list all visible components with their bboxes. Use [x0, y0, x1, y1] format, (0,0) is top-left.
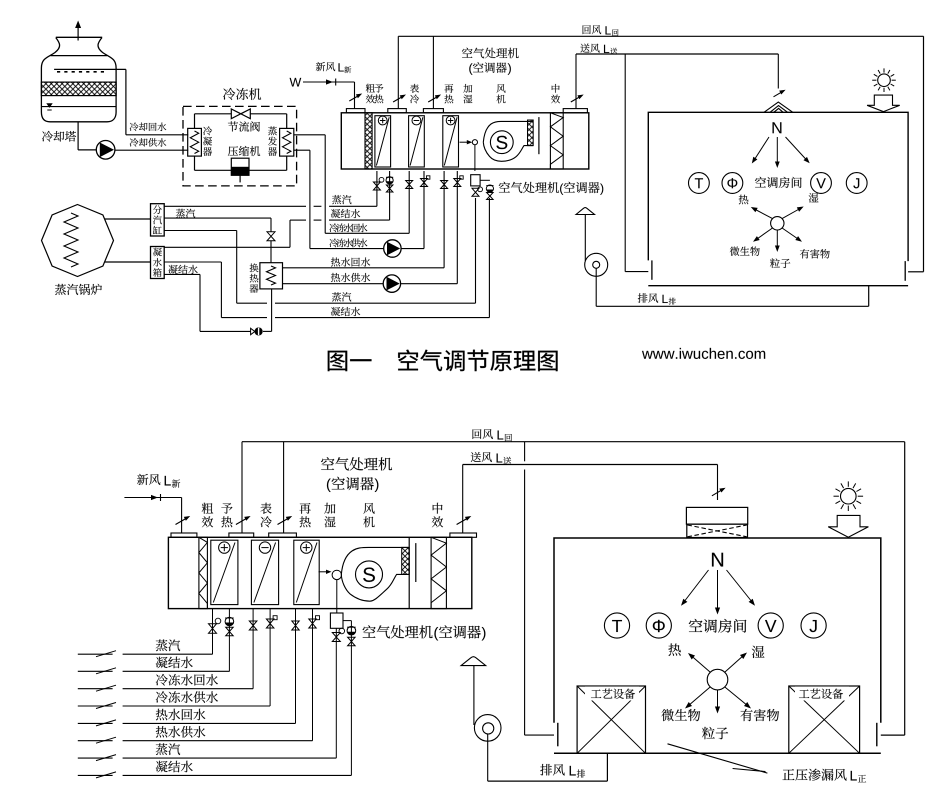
damper return riser 1 (bottom)	[236, 516, 251, 525]
room enclosure (top)	[648, 112, 908, 285]
AHU inlet plates (top)	[346, 109, 587, 113]
badge V (top room)	[811, 173, 832, 194]
sun (bottom)	[834, 481, 864, 511]
humidifier steam valve (bottom)	[332, 628, 344, 758]
condensate tank 凝水箱	[151, 247, 165, 279]
hw return valve (top AHU)	[441, 181, 448, 189]
label 冷冻水回水 (bottom main 3)	[156, 674, 218, 686]
pump P2 chilled water	[384, 240, 401, 257]
label 蒸汽锅炉	[55, 284, 102, 295]
label N (top room)	[773, 122, 782, 133]
label 空气处理机(空调器) (top right)	[499, 182, 603, 195]
label 空气处理机(空调器) (bottom right)	[363, 625, 486, 640]
badge T (bottom room)	[604, 613, 629, 638]
chw return valve (bottom AHU)	[249, 609, 257, 689]
medium filter 中效 (top AHU)	[550, 113, 563, 169]
badge V (bottom room)	[758, 613, 783, 638]
chw return valve (top AHU)	[406, 181, 413, 189]
label 新风 L新 (bottom)	[137, 474, 180, 488]
label 微生物 (bottom room)	[662, 709, 701, 721]
boiler condensate pipe	[105, 261, 151, 263]
badge Phi (bottom room)	[646, 613, 671, 638]
label 凝结水 (bottom main 8)	[156, 761, 193, 773]
damper fresh air (top)	[349, 94, 362, 102]
chilled water supply main 冷冻水供水	[294, 150, 424, 248]
label 热水回水	[331, 257, 370, 266]
label 蒸汽 (steam main)	[332, 195, 351, 204]
preheat coil (bottom AHU)	[211, 540, 238, 604]
watermark www.iwuchen.com	[642, 348, 765, 359]
label 有害物 (bottom room)	[741, 709, 780, 721]
humidifier spray nozzle (top AHU)	[460, 140, 478, 171]
supply air duct 送风 (top)	[576, 54, 778, 109]
label 湿 (bottom room)	[752, 646, 765, 658]
tower drain pipe	[78, 122, 96, 150]
sun (top)	[872, 68, 896, 92]
label 蒸汽 (bottom main 1)	[156, 640, 180, 652]
supply main 蒸汽 (bottom)	[78, 651, 213, 657]
supply main 热水回水 (bottom)	[78, 720, 296, 726]
steam main 2 (humidifier)	[164, 198, 475, 303]
humidifier spray nozzle (bottom AHU)	[319, 570, 342, 613]
medium filter 中效 (bottom AHU)	[431, 537, 446, 608]
badge T (top room)	[689, 173, 710, 194]
label 热 (top room)	[739, 195, 749, 205]
valve on HX steam branch	[267, 232, 275, 263]
steam branch to heat exchanger	[164, 218, 271, 231]
fresh air line (bottom)	[124, 494, 181, 533]
figure title 图一 空气调节原理图	[328, 350, 558, 372]
room left grille (bottom)	[557, 723, 559, 747]
reheat coil (top AHU)	[443, 116, 459, 167]
exhaust vent cap (top)	[576, 208, 595, 215]
damper ceiling drop (bottom)	[712, 488, 726, 496]
steam boiler 蒸汽锅炉	[42, 205, 114, 277]
heat exchanger 换热器	[260, 263, 283, 289]
evaporator	[280, 128, 294, 156]
exhaust stack (bottom)	[473, 666, 475, 725]
hw return valve (bottom AHU)	[292, 609, 299, 724]
label 空调房间 (top room)	[755, 177, 802, 188]
load center node (bottom room)	[707, 669, 728, 690]
preheat coil (top AHU)	[375, 116, 391, 167]
cooling coil (bottom AHU)	[251, 540, 278, 604]
humidifier steam valve (top)	[472, 187, 483, 196]
filter column coarse (top AHU)	[365, 113, 372, 169]
damper supply riser (top)	[571, 95, 584, 103]
label 排风 L排 (top)	[638, 293, 676, 304]
label (空调器) (top title)	[469, 62, 511, 75]
fan discharge grid (top AHU)	[528, 117, 539, 154]
exhaust fan (top)	[585, 253, 608, 276]
label 回风 L回 (top)	[583, 25, 619, 36]
label 湿 (top room)	[809, 193, 819, 203]
label 冷冻机	[223, 88, 261, 100]
pipe cooling supply 冷却供水	[115, 149, 188, 151]
damper return riser 1 (top)	[393, 95, 406, 103]
label 粒子 (top room)	[770, 258, 790, 268]
process equipment left 工艺设备	[577, 686, 645, 753]
hw supply valve (top AHU)	[454, 176, 463, 187]
label 凝结水 (humidifier main)	[331, 307, 360, 316]
cooling tower CT1	[41, 37, 126, 122]
exhaust duct 排风 (top)	[596, 268, 869, 306]
pump P3 hot water	[383, 275, 400, 292]
chilled water return main 冷冻水回水	[294, 135, 409, 234]
return air duct 回风 (bottom)	[242, 442, 905, 735]
reheat coil (bottom AHU)	[294, 540, 319, 604]
pipe cooling return 冷却回水	[126, 69, 188, 134]
label 冷冻水供水	[329, 238, 367, 247]
damper fresh air (bottom)	[176, 516, 191, 525]
supply branch into room (top)	[625, 54, 648, 272]
compressor 压缩机	[231, 158, 249, 182]
supply main 蒸汽 (bottom)	[78, 755, 337, 761]
exhaust fan (bottom)	[474, 715, 501, 742]
exhaust stack (top)	[584, 215, 586, 262]
label 热水供水	[331, 273, 370, 282]
label 蒸汽 (humidifier main)	[332, 292, 351, 301]
label 节流阀	[228, 121, 260, 131]
label 压缩机	[228, 146, 260, 156]
damper return riser 2 (top)	[428, 95, 441, 103]
hot water supply main 热水供水	[283, 171, 458, 284]
label 凝结水 (HX drain)	[168, 265, 197, 274]
humidifier feed box (top AHU)	[471, 175, 490, 186]
AHU inlet plates (bottom)	[171, 533, 477, 537]
label 冷却供水	[130, 138, 167, 147]
AHU casing (bottom)	[168, 537, 471, 608]
supply main 凝结水 (bottom)	[78, 668, 230, 674]
roof diffuser (top room)	[764, 102, 793, 112]
badge J (top room)	[846, 173, 867, 194]
steam riser valve (top AHU)	[373, 177, 384, 190]
damper supply riser (bottom)	[457, 516, 472, 525]
cooling coil (top AHU)	[409, 116, 425, 167]
label N (bottom room)	[712, 553, 723, 567]
humidifier trap (top)	[486, 185, 493, 200]
label 空气处理机 (bottom title)	[321, 457, 392, 470]
supply air duct 送风 (bottom)	[463, 465, 718, 534]
damper return riser 2 (bottom)	[278, 516, 293, 525]
hot water return main 热水回水	[283, 171, 445, 268]
chiller dashed enclosure	[183, 106, 297, 185]
label 回风 L回 (bottom)	[472, 429, 511, 441]
solar gain block arrow (bottom)	[828, 515, 868, 537]
label 凝结水 (bottom main 2)	[156, 657, 193, 669]
condensate trap (bottom AHU)	[225, 609, 234, 672]
condensate line from AHU preheater	[164, 171, 389, 247]
return air duct 回风 (top)	[398, 36, 923, 271]
steam header 分汽缸	[151, 204, 165, 236]
return branch left (bottom)	[525, 442, 554, 735]
condensate trap (top AHU)	[386, 177, 393, 192]
steam riser valve (bottom AHU)	[209, 609, 221, 655]
N arrows (top room)	[752, 137, 810, 168]
load center node (top room)	[771, 217, 784, 230]
cooling tower exhaust arrow	[75, 21, 81, 41]
label 空气处理机 (top title)	[462, 48, 519, 59]
N arrows (bottom room)	[681, 570, 755, 615]
damper roof drop (top)	[774, 90, 786, 97]
infiltration arrow 正压渗漏风	[668, 744, 768, 773]
supply fan (top AHU)	[483, 121, 533, 161]
label 热 (bottom room)	[668, 643, 680, 655]
label 空调房间 (bottom room)	[689, 619, 747, 633]
supply main 冷冻水供水 (bottom)	[78, 703, 270, 709]
label 冷凝器	[203, 126, 212, 156]
hw supply valve (bottom AHU)	[309, 609, 320, 741]
supply main 凝结水 (bottom)	[78, 772, 352, 778]
label 蒸汽 (header out)	[176, 209, 195, 218]
supply main 冷冻水回水 (bottom)	[78, 685, 253, 691]
label 微生物 (top room)	[730, 247, 760, 256]
label 有害物 (top room)	[800, 249, 830, 258]
condenser	[188, 128, 202, 156]
badge Phi (top room)	[722, 173, 743, 194]
steam main to AHU preheater	[164, 171, 377, 206]
badge J (bottom room)	[801, 613, 826, 638]
label 粒子 (bottom room)	[702, 727, 728, 739]
boiler steam pipe	[105, 218, 151, 220]
label 冷冻水回水	[329, 223, 367, 232]
label 凝结水 (preheater)	[331, 209, 360, 218]
label 冷却回水	[130, 122, 167, 131]
label 新风 L新 (top)	[316, 62, 351, 73]
section labels (top AHU)	[366, 84, 560, 104]
ceiling HEPA unit (bottom room)	[686, 507, 747, 537]
process equipment right 工艺设备	[789, 686, 860, 753]
condensate main 2 (humidifier return)	[164, 198, 489, 318]
exhaust duct 排风 (bottom)	[488, 734, 608, 781]
label 送风 L送 (top)	[580, 44, 617, 55]
label 排风 L排 (bottom)	[540, 764, 585, 778]
label 热水供水 (bottom main 6)	[156, 726, 206, 738]
label (空调器) (bottom title)	[327, 477, 379, 492]
filter column coarse (bottom AHU)	[199, 537, 208, 608]
room right grille (top)	[904, 261, 906, 281]
label 换热器	[250, 263, 259, 292]
label 热水回水 (bottom main 5)	[156, 709, 206, 721]
supply main 热水供水 (bottom)	[78, 737, 313, 743]
HX condensate drain with trap	[164, 274, 271, 336]
room left grille (top)	[651, 260, 653, 279]
label 冷冻水供水 (bottom main 4)	[156, 691, 218, 703]
fresh air entry W (top)	[290, 78, 355, 109]
label 正压渗漏风 L正	[783, 769, 867, 783]
humidifier trap (bottom)	[347, 621, 356, 776]
supply fan (bottom AHU)	[341, 547, 409, 601]
throttle valve 节流阀	[231, 109, 250, 119]
load arrows (top room)	[751, 207, 804, 253]
chw supply valve (bottom AHU)	[266, 609, 277, 706]
AHU casing (top)	[341, 113, 589, 169]
cooling tower label 冷却塔	[42, 131, 76, 142]
chw supply valve (top AHU)	[421, 176, 430, 187]
room enclosure (bottom)	[554, 538, 881, 753]
refrigerant pipe top	[195, 114, 287, 129]
refrigerant pipe bottom	[195, 156, 287, 170]
label 蒸汽 (bottom main 7)	[156, 743, 180, 755]
label 蒸发器	[268, 126, 277, 155]
load arrows (bottom room)	[685, 653, 751, 714]
section labels (bottom AHU)	[202, 503, 443, 528]
fan discharge grid (bottom AHU)	[402, 537, 416, 608]
pump P1	[96, 141, 115, 160]
solar gain block arrow (top)	[867, 95, 900, 112]
label 送风 L送 (bottom)	[471, 452, 511, 465]
room right grille (bottom)	[876, 723, 878, 747]
humidifier feed box (bottom AHU)	[330, 613, 351, 628]
exhaust vent cap (bottom)	[461, 657, 486, 666]
